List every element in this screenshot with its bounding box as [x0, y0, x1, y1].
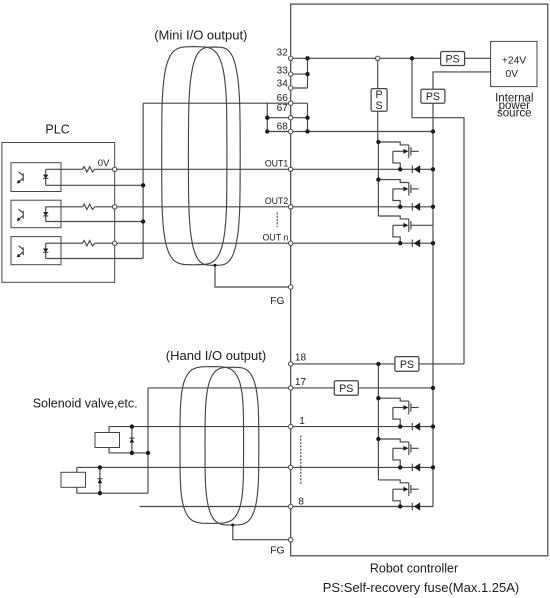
svg-text:32: 32: [277, 48, 289, 59]
svg-text:(Hand I/O output): (Hand I/O output): [166, 348, 266, 363]
svg-text:8: 8: [298, 496, 304, 507]
svg-text:(Mini I/O output): (Mini I/O output): [154, 28, 247, 43]
svg-text:0V: 0V: [506, 69, 519, 80]
svg-text:34: 34: [277, 79, 289, 90]
svg-text:OUT1: OUT1: [265, 158, 289, 168]
svg-text:FG: FG: [270, 546, 284, 557]
svg-text:PS:Self-recovery fuse(Max.1.25: PS:Self-recovery fuse(Max.1.25A): [323, 580, 520, 595]
svg-text:OUT n: OUT n: [263, 232, 289, 242]
svg-text:S: S: [376, 100, 383, 112]
svg-text:PS: PS: [446, 53, 460, 65]
svg-text:PS: PS: [426, 91, 440, 103]
svg-text:OUT2: OUT2: [265, 196, 289, 206]
svg-text:PS: PS: [339, 383, 353, 395]
svg-text:source: source: [497, 108, 532, 120]
svg-text:+24V: +24V: [502, 55, 526, 66]
svg-text:17: 17: [295, 377, 307, 388]
svg-text:0V: 0V: [98, 158, 110, 169]
svg-text:18: 18: [295, 352, 307, 363]
svg-text:PS: PS: [400, 359, 414, 371]
svg-text:Robot controller: Robot controller: [370, 561, 458, 575]
svg-text:Solenoid valve,etc.: Solenoid valve,etc.: [33, 397, 138, 411]
svg-text:33: 33: [277, 65, 289, 76]
svg-text:FG: FG: [270, 296, 284, 307]
svg-text:68: 68: [277, 122, 289, 133]
svg-text:67: 67: [277, 103, 289, 114]
svg-text:1: 1: [299, 416, 305, 427]
svg-text:PLC: PLC: [45, 123, 69, 137]
